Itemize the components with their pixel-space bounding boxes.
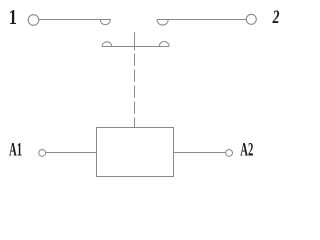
wire right fixed contact to terminal 2 [157, 19, 246, 21]
bridge contact bump right (dome arc) [159, 42, 169, 47]
label 2 (terminal 2) [272, 6, 280, 28]
label A2 [240, 140, 253, 161]
moving bridge bar [102, 46, 169, 48]
terminal A1 circle [39, 150, 46, 157]
fixed contact right (cup arc) [157, 20, 168, 26]
bridge contact bump left (dome arc) [102, 42, 112, 47]
coil K (rectangle) [97, 128, 174, 177]
label 1 (terminal 1) [9, 6, 17, 30]
terminal 1 circle [28, 15, 39, 26]
svg-text:A1: A1 [9, 140, 22, 161]
wire A1 to coil [46, 152, 97, 154]
terminal A2 circle [226, 150, 233, 157]
wire coil to A2 [174, 152, 226, 154]
terminal 2 circle [246, 14, 256, 24]
label A1 [9, 140, 22, 161]
mechanical link to coil (dashed) [134, 54, 136, 128]
fixed contact left (cup arc) [100, 20, 110, 25]
svg-text:1: 1 [9, 6, 17, 30]
svg-text:2: 2 [272, 6, 280, 28]
svg-text:A2: A2 [240, 140, 253, 161]
wire terminal 1 to left fixed contact [39, 19, 111, 21]
actuator stem (solid) [134, 32, 136, 50]
